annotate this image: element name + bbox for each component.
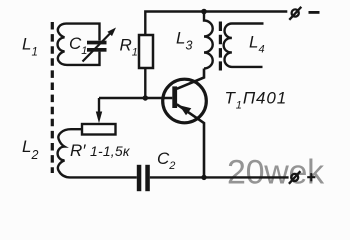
capacitor C1 plates — [87, 41, 107, 52]
emitter wire — [177, 104, 204, 177]
emitter arrow (PNP) — [179, 105, 191, 115]
resistor R1 body — [139, 35, 153, 68]
svg-text:20wek: 20wek — [227, 154, 325, 192]
variable resistor R' body — [82, 124, 116, 135]
capacitor C2 plates — [137, 165, 150, 191]
node base junction — [143, 95, 148, 100]
terminal (plus) bottom right — [291, 174, 298, 181]
tank loop L1 coil left side (3 bumps) — [58, 24, 67, 65]
tank loop top line — [66, 24, 100, 41]
wiper arrow down to R' — [98, 98, 100, 112]
inductor L4 — [224, 24, 264, 67]
svg-text:R′1-1,5к: R′1-1,5к — [70, 141, 131, 160]
wire R' to L2 and coil L2 (3 bumps) — [58, 129, 137, 177]
terminal (minus) top right — [292, 9, 299, 16]
transistor T1 circle — [163, 79, 207, 123]
node emitter junction — [201, 175, 206, 180]
resistor R1 top wire to supply rail — [145, 12, 287, 36]
base wire — [99, 97, 172, 99]
ferrite rod (dashed line) — [51, 22, 54, 173]
inductor L3 — [204, 12, 213, 69]
collector wire — [177, 69, 204, 89]
transformer core (dashed) — [219, 22, 222, 71]
wire R1 bottom to base node — [144, 68, 146, 98]
transistor base bar — [172, 86, 177, 108]
capacitor C1 variable arrow — [83, 33, 111, 62]
tank loop bottom line — [67, 52, 100, 65]
node junction on top rail — [201, 9, 207, 15]
wire C2 to plus terminal — [150, 176, 289, 178]
